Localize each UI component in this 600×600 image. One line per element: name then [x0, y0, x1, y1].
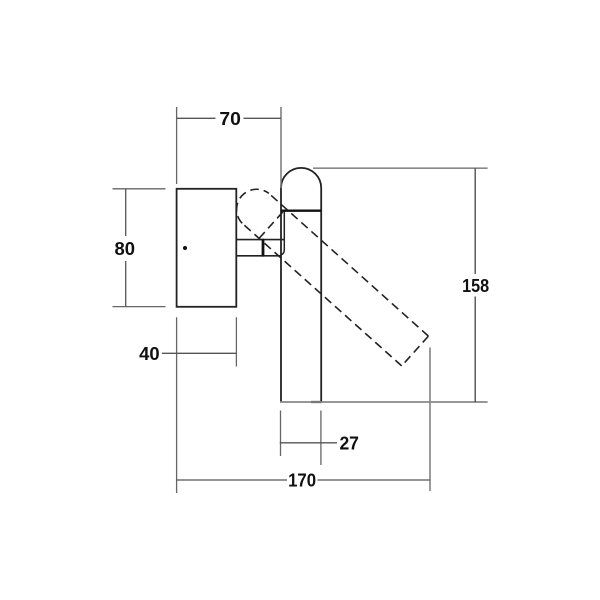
bracket slot line in tube: [281, 212, 285, 255]
dim 27: left extension line: [280, 411, 282, 457]
dashed tilted lamp: upper long edge: [269, 193, 429, 336]
bracket top edge: [236, 239, 284, 241]
dashed tilted lamp: lower long edge: [242, 223, 402, 366]
bracket pivot pin: [262, 239, 265, 257]
dim 80: dimension line: [125, 189, 127, 307]
svg-text:40: 40: [139, 343, 160, 364]
svg-text:70: 70: [219, 108, 241, 129]
wall-mount box: [177, 189, 237, 307]
dim 70: left extension line: [176, 107, 178, 184]
dim 70: right extension line: [280, 107, 282, 188]
dim 170: right extension line: [429, 348, 431, 492]
dashed tilted lamp: far end edge: [402, 336, 429, 366]
dim 40: left extension line (wall line, shared with dim 170): [176, 317, 178, 493]
bracket bottom edge: [236, 255, 281, 257]
svg-text:80: 80: [115, 238, 136, 259]
dim 158: top extension line: [313, 167, 488, 169]
lamp tube outline (upright): [281, 168, 321, 402]
dim 158: dimension line: [474, 168, 476, 402]
dim 27: right extension line: [320, 411, 322, 466]
dashed tilted lamp: dome arc: [237, 189, 269, 223]
tube bottom edge: [311, 401, 322, 403]
dim 70: dimension line: [177, 117, 281, 119]
dashed tilted lamp: cap line: [259, 209, 286, 239]
dim 27: dimension line: [280, 442, 337, 444]
dim 80: bottom extension line: [113, 306, 166, 308]
tube cap line: [281, 209, 321, 211]
dim 40: right extension line: [235, 317, 237, 366]
dim 40: dimension line: [162, 352, 236, 354]
dim 158: bottom extension line: [280, 401, 488, 403]
dim 80: top extension line: [113, 188, 166, 190]
svg-text:27: 27: [339, 432, 359, 453]
svg-text:170: 170: [288, 470, 316, 491]
svg-text:158: 158: [462, 275, 489, 296]
dim 170: dimension line: [177, 479, 430, 481]
mount fixing dot: [183, 246, 187, 250]
